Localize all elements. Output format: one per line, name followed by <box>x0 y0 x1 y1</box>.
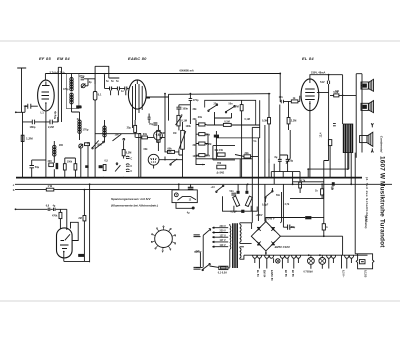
OT frame <box>343 124 353 153</box>
heater choke group 5 <box>327 255 336 258</box>
svg-text:2,2M: 2,2M <box>291 120 297 123</box>
cap 70p <box>153 123 157 125</box>
tube V2 internals <box>133 80 143 103</box>
IF can vertical feed wires <box>58 67 61 122</box>
svg-text:170p: 170p <box>79 74 85 78</box>
dark blob small <box>85 165 88 168</box>
svg-text:k: k <box>326 226 328 229</box>
svg-text:6 75/5bA: 6 75/5bA <box>304 270 314 273</box>
pot P1 <box>157 130 160 142</box>
selector feed wire <box>178 184 180 190</box>
cap 180p <box>32 120 34 125</box>
heater drop labels rotated <box>256 270 367 281</box>
tube V1 internals <box>42 82 50 111</box>
wire input to grid <box>16 111 25 113</box>
tube V3 EL84 envelope <box>301 79 319 111</box>
svg-text:0,3M: 0,3M <box>262 120 268 123</box>
svg-text:Δ+34Ω: Δ+34Ω <box>217 171 225 174</box>
wire EL84 anode top <box>310 75 343 79</box>
svg-text:25µ: 25µ <box>127 127 132 130</box>
label 5805 <box>78 254 84 257</box>
EL84 cathode feedback wire <box>308 153 349 170</box>
resistor 780 box <box>217 165 226 169</box>
resistor 1k v left of OT <box>321 189 324 195</box>
svg-text:EF 85: EF 85 <box>291 270 294 277</box>
svg-text:4,7M: 4,7M <box>233 105 239 108</box>
cap 17n <box>281 100 283 104</box>
svg-text:0,1-0,5A: 0,1-0,5A <box>218 272 227 275</box>
verticals mid-right <box>240 100 280 221</box>
V2 leads down <box>133 98 151 128</box>
bridge minus wire <box>280 236 342 255</box>
svg-text:(Klammerwerte bei Allstrombetr: (Klammerwerte bei Allstrombetr.) <box>111 203 158 207</box>
tube V4 EM84 envelope <box>57 228 73 258</box>
svg-text:EM 84: EM 84 <box>57 56 70 61</box>
svg-text:5813: 5813 <box>77 106 83 109</box>
pinout pin numbers <box>151 226 177 253</box>
wire coil to bus <box>53 141 55 178</box>
feedback wire lower <box>290 194 324 199</box>
wire pot area <box>158 94 165 151</box>
transformer primary tap 127V <box>212 236 228 238</box>
svg-text:6,8: 6,8 <box>46 205 50 208</box>
wires left column <box>196 120 208 165</box>
svg-text:30k: 30k <box>193 108 198 111</box>
trimmer circle <box>79 144 83 148</box>
bridge diode SE <box>271 241 275 245</box>
switch right of driver <box>265 192 271 197</box>
svg-text:0,5: 0,5 <box>105 160 109 163</box>
svg-text:470k: 470k <box>52 214 58 217</box>
transformer primary tap 110V <box>212 246 228 248</box>
svg-text:EL 84: EL 84 <box>256 270 259 277</box>
phase splitter resistor left <box>233 196 240 206</box>
svg-text:100n: 100n <box>182 108 188 111</box>
svg-text:0,1: 0,1 <box>98 93 102 97</box>
wire y182 right section <box>293 181 324 183</box>
svg-text:Continental: Continental <box>379 136 383 153</box>
svg-text:40k 1W: 40k 1W <box>214 149 223 152</box>
cap C2 <box>126 164 130 166</box>
svg-text:100k: 100k <box>97 144 103 147</box>
svg-text:0,1M: 0,1M <box>181 120 187 123</box>
svg-text:900: 900 <box>59 144 64 147</box>
output transformer OT core <box>344 124 352 153</box>
svg-text:(Bildmitte): (Bildmitte) <box>364 216 368 229</box>
svg-text:10p: 10p <box>88 81 93 84</box>
mains wire <box>196 266 219 267</box>
svg-text:8µ: 8µ <box>290 159 293 162</box>
svg-text:B250 C100: B250 C100 <box>275 245 291 249</box>
cap 50n mid <box>148 117 151 119</box>
splitter frame wires <box>223 184 258 211</box>
selector bottom wire <box>176 203 193 209</box>
vertical from switch to bridge <box>280 192 281 223</box>
svg-text:Spannungsmessen: mit S/V: Spannungsmessen: mit S/V <box>111 197 152 201</box>
svg-text:12,4: 12,4 <box>319 132 322 137</box>
bridge plus wire up <box>266 218 305 222</box>
cap 100p <box>176 107 181 109</box>
bridge diode NW <box>257 227 261 231</box>
svg-text:1,2M: 1,2M <box>26 137 33 141</box>
transformer heater secondary <box>240 247 241 259</box>
pinout pin end circles <box>151 226 175 252</box>
svg-text:4µ: 4µ <box>187 211 190 214</box>
speaker LS1 wires <box>361 85 362 87</box>
resistor 22k h <box>244 155 251 158</box>
transformer primary tap 117V <box>212 241 228 243</box>
wire jack to pot <box>159 159 183 161</box>
switch arm S2 <box>113 134 122 141</box>
V4 internals <box>60 234 70 248</box>
wire V2 anode to bus2 <box>146 94 168 120</box>
switch arm S1a <box>93 141 99 148</box>
svg-text:5n: 5n <box>254 140 257 143</box>
resistor 2,2M v <box>287 118 290 124</box>
svg-text:1 W: 1 W <box>48 184 53 188</box>
svg-text:5805: 5805 <box>79 255 85 258</box>
resistor 1k h <box>291 100 298 103</box>
heater drops <box>255 255 352 268</box>
electrolytic cap dark <box>56 163 59 169</box>
speaker LS3 <box>360 136 367 143</box>
resistor 470k v <box>59 212 62 218</box>
cap 170p top <box>189 99 193 101</box>
cap 8u B <box>286 159 290 161</box>
svg-text:L1: L1 <box>41 111 45 115</box>
svg-text:100: 100 <box>335 90 340 93</box>
coil L2 above bus <box>53 145 56 156</box>
cap C1 <box>126 156 130 158</box>
svg-text:50µ 2µ: 50µ 2µ <box>53 110 57 119</box>
bottom wire V4 <box>64 252 90 263</box>
box on B2 bus <box>332 182 335 186</box>
antenna bracket top-left <box>17 68 26 112</box>
LS3 terminals <box>371 123 373 152</box>
wire tone mid <box>206 112 259 125</box>
wire jack right segment <box>164 157 166 161</box>
svg-text:0,1M: 0,1M <box>245 118 250 121</box>
resistor v <box>63 164 66 170</box>
small circle control <box>154 131 163 140</box>
phase splitter resistor right <box>245 196 252 206</box>
bridge diode SW <box>257 241 261 245</box>
label 5813 <box>76 105 81 108</box>
svg-text:EF 85: EF 85 <box>39 56 51 61</box>
cap stubs down <box>111 90 126 95</box>
V4 right loop wire <box>71 222 79 240</box>
RF choke coil <box>103 126 106 137</box>
svg-text:0,3M: 0,3M <box>126 151 132 154</box>
svg-text:100k: 100k <box>67 161 73 164</box>
svg-text:0,1M: 0,1M <box>224 120 230 123</box>
fuse holder <box>356 254 374 269</box>
svg-text:22k: 22k <box>245 152 250 155</box>
legend dash b <box>194 267 201 269</box>
svg-text:50n: 50n <box>276 194 281 197</box>
input node terminal <box>15 111 17 113</box>
svg-text:60k: 60k <box>144 148 149 151</box>
svg-text:2,2M: 2,2M <box>48 125 54 129</box>
svg-text:8µ: 8µ <box>275 156 278 159</box>
svg-text:70p: 70p <box>149 123 154 126</box>
IF coil 2 <box>78 120 81 133</box>
svg-text:220 V: 220 V <box>220 230 227 233</box>
svg-text:400: 400 <box>48 160 53 163</box>
left column resistor 20k <box>199 123 205 126</box>
resistor h small <box>85 143 90 146</box>
splitter top contacts <box>237 191 240 194</box>
ground blob <box>192 207 195 210</box>
resistor 0,1M h in box <box>223 123 231 126</box>
svg-text:50k: 50k <box>168 151 173 154</box>
switch arm S3 <box>115 165 120 171</box>
resistor 1W on b <box>46 188 54 191</box>
driver transformer caps 52n <box>231 193 236 195</box>
svg-text:2,74 k/2,74 k: 2,74 k/2,74 k <box>50 71 66 75</box>
resistor 4,7k v near power <box>299 182 302 188</box>
resistor 30k h <box>142 136 148 139</box>
svg-text:EF 85: EF 85 <box>284 270 287 277</box>
cap 170p <box>81 78 84 80</box>
svg-text:+245V: +245V <box>256 214 263 217</box>
verticals right of V4 <box>84 184 89 262</box>
mains switch <box>203 265 209 270</box>
wire cap row <box>23 117 58 122</box>
svg-text:C: C <box>130 170 132 173</box>
resistor box right of +245 <box>305 216 311 219</box>
bracket 40k 1W <box>213 146 235 160</box>
svg-text:100k: 100k <box>186 125 192 128</box>
svg-text:25n: 25n <box>214 103 219 106</box>
svg-text:5n: 5n <box>116 80 119 83</box>
svg-text:3: 3 <box>175 236 177 238</box>
page top edge <box>0 40 400 42</box>
bridge diode NE <box>271 227 275 231</box>
resistor k v <box>322 224 325 230</box>
junction dots right <box>279 73 323 186</box>
speaker LS2 <box>361 103 368 110</box>
svg-text:C: C <box>130 157 132 160</box>
selector tent <box>178 197 197 201</box>
cap 8u A <box>278 159 282 161</box>
dial lamp 2 <box>319 258 326 265</box>
resistor 0,3M el84 grid <box>268 118 271 124</box>
IF coil 1a <box>70 78 73 91</box>
box 400 <box>49 163 54 167</box>
svg-text:+245 V: +245 V <box>267 218 275 221</box>
svg-text:780: 780 <box>217 162 222 165</box>
bridge rectifier B250 C100 diamond <box>251 222 280 251</box>
transformer HV secondary <box>240 223 241 244</box>
tube V1 EF85 envelope <box>38 80 55 111</box>
cap 2,2M <box>50 120 52 125</box>
mains selector arm <box>203 229 211 236</box>
vertical feeds power <box>283 172 300 185</box>
resistor 60k h <box>168 150 175 153</box>
svg-text:30k: 30k <box>143 133 148 136</box>
svg-text:C: C <box>130 165 132 168</box>
svg-text:30k: 30k <box>193 144 198 147</box>
svg-text:+13: +13 <box>211 186 216 189</box>
transformer primary winding <box>230 224 231 267</box>
transformer primary tap 220V <box>212 232 228 234</box>
switch arm tone S4a <box>209 105 217 110</box>
svg-text:0,5µF: 0,5µF <box>231 211 238 214</box>
svg-text:50n: 50n <box>229 103 234 106</box>
resistor 2M v right <box>83 216 86 221</box>
svg-text:c: c <box>13 183 15 187</box>
speaker bus verticals <box>356 74 362 158</box>
cap on a-line 2 <box>54 208 56 211</box>
svg-text:EABC 80: EABC 80 <box>128 56 147 61</box>
wires secondary to bridge <box>240 223 252 259</box>
svg-text:4µ: 4µ <box>53 205 56 208</box>
svg-text:0,12 B: 0,12 B <box>364 270 367 278</box>
IF can 1 frame <box>66 74 79 109</box>
svg-text:4µF: 4µF <box>195 250 200 253</box>
junction dots on buses <box>22 73 353 257</box>
bus2 wire <box>169 93 271 96</box>
svg-text:127 V: 127 V <box>220 234 227 237</box>
bus b <box>15 189 179 191</box>
trimmer cap <box>81 84 85 88</box>
wire series caps <box>105 75 129 89</box>
resistor 1,2M <box>21 135 24 141</box>
cap at screen <box>327 81 329 84</box>
svg-text:52n: 52n <box>230 190 235 193</box>
page bottom edge <box>0 300 400 302</box>
heater bus <box>244 254 368 256</box>
transformer core <box>233 223 237 268</box>
switch bank box top <box>95 133 141 135</box>
svg-text:5n: 5n <box>106 80 109 83</box>
switch arm tone S4b <box>226 107 234 112</box>
box frame verticals mid <box>139 134 141 178</box>
lamp small <box>276 259 280 263</box>
svg-text:5n: 5n <box>111 80 114 83</box>
svg-text:17n: 17n <box>279 96 284 99</box>
wire middle verticals <box>88 142 95 178</box>
switch arm right of jack <box>171 159 178 164</box>
wire T1 cathode down to bus <box>45 111 47 178</box>
pot P2 volume <box>181 130 185 149</box>
svg-text:1607 W Musiktruhe Turandot: 1607 W Musiktruhe Turandot <box>379 156 386 248</box>
wire y158.8 <box>196 158 252 160</box>
vertical x355 down <box>355 153 357 254</box>
switch arm S1b <box>95 143 103 149</box>
svg-text:117 V: 117 V <box>220 239 227 242</box>
svg-text:0,5µF: 0,5µF <box>262 204 269 207</box>
svg-text:EM 84: EM 84 <box>263 270 266 278</box>
cap 50u <box>288 225 290 230</box>
wires 8u caps <box>271 155 300 178</box>
tone control box frame <box>205 100 260 138</box>
svg-text:EL 84: EL 84 <box>302 56 314 61</box>
left column resistor 0,1M2 <box>199 142 205 145</box>
tube V3 internals <box>305 79 315 111</box>
pot 0,1M mid <box>177 115 180 126</box>
svg-text:1n: 1n <box>121 90 124 93</box>
heater choke group 3 <box>280 255 289 258</box>
svg-text:230V, 48mA: 230V, 48mA <box>311 70 325 74</box>
heater choke group 6 <box>345 255 354 258</box>
svg-text:12: 12 <box>189 199 192 202</box>
svg-text:170p: 170p <box>193 99 199 102</box>
svg-text:EABC 80: EABC 80 <box>270 270 273 281</box>
resistor 25u mid <box>134 125 137 132</box>
verticals to transformer from above <box>252 156 283 222</box>
main bus B1 <box>16 177 362 179</box>
selector C symbol <box>174 193 178 197</box>
svg-text:4,7k: 4,7k <box>285 203 290 206</box>
extra labels middle <box>59 80 340 207</box>
wire cathode branch <box>32 159 46 161</box>
cap 4u dark <box>188 187 194 189</box>
svg-text:600/680 mA: 600/680 mA <box>180 69 194 73</box>
wire EABC grid feed top <box>95 66 119 84</box>
svg-text:110 V: 110 V <box>220 244 227 247</box>
resistor 4,7M v <box>240 105 243 111</box>
legend dash a <box>194 235 201 237</box>
switch contacts <box>103 141 105 143</box>
transformer primary tap 240V <box>212 227 228 229</box>
pinout circle <box>155 230 173 248</box>
svg-text:30k: 30k <box>193 118 198 121</box>
wire grid cap to tube <box>25 106 38 112</box>
svg-text:470p: 470p <box>63 88 69 91</box>
extra verticals power feed <box>258 130 290 184</box>
resistor 40k box <box>217 153 225 156</box>
pinout ticks <box>153 227 175 250</box>
svg-text:6,3 V~: 6,3 V~ <box>341 270 344 278</box>
svg-text:1: 1 <box>163 226 165 228</box>
svg-text:4: 4 <box>175 242 177 245</box>
resistor 5,6k h <box>334 94 339 97</box>
speaker LS1 <box>361 82 368 89</box>
resistor 0,3M v <box>122 150 125 156</box>
bridge S stub <box>265 251 267 255</box>
electrolytic 50u <box>30 166 35 168</box>
wires IF block <box>72 74 96 141</box>
heater choke group 2 <box>265 255 274 258</box>
voltage selector box <box>172 190 197 203</box>
vertical from top bus <box>279 74 281 99</box>
wire tone box right <box>252 126 259 128</box>
resistor 100k v <box>74 164 77 170</box>
splitter bottom blob <box>241 210 244 213</box>
tube V2 EABC80 envelope <box>128 80 146 109</box>
svg-text:54V: 54V <box>320 80 325 84</box>
wire left vertical to bus <box>22 112 24 177</box>
wire a-line EM84 <box>16 209 67 230</box>
svg-text:2M: 2M <box>78 217 81 220</box>
svg-text:1 2 3: 1 2 3 <box>151 162 157 164</box>
cap 0,1u mid <box>93 92 97 101</box>
coupling cap 10n at T1 grid <box>28 104 31 109</box>
wire T1 anode to top bus <box>44 74 46 81</box>
left column resistor 20k2 <box>199 154 205 157</box>
top bus wire <box>45 73 280 75</box>
V3 cathode lead <box>308 111 310 178</box>
OT leads <box>345 153 351 185</box>
IF coil 1b <box>70 93 73 104</box>
svg-text:6: 6 <box>162 251 164 253</box>
mains fuse box <box>219 266 228 269</box>
cap on a-line 1 <box>48 208 50 211</box>
svg-text:5: 5 <box>170 249 172 251</box>
resistor 25u dark label <box>103 165 106 171</box>
